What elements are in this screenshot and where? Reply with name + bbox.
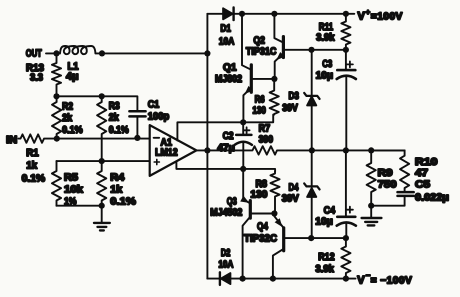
svg-text:10μ: 10μ xyxy=(315,217,333,228)
svg-text:MJ4502: MJ4502 xyxy=(210,208,242,219)
node Q1 base junction xyxy=(271,76,277,82)
svg-text:OUT: OUT xyxy=(26,48,42,59)
node C3-C4 junction xyxy=(343,147,349,153)
resistor R13 xyxy=(26,53,61,96)
svg-text:0.1%: 0.1% xyxy=(110,197,136,208)
svg-text:3.3: 3.3 xyxy=(30,73,43,84)
resistor R8 xyxy=(250,172,279,214)
wire inverting input line xyxy=(57,138,150,140)
svg-text:IN: IN xyxy=(6,135,17,146)
svg-text:D2: D2 xyxy=(221,248,231,259)
transistor Q2 TIP31C xyxy=(246,14,285,79)
wire Q2 base line xyxy=(283,49,346,51)
resistor R2 xyxy=(52,96,83,138)
svg-text:39V: 39V xyxy=(282,194,299,205)
diode D2 10A xyxy=(218,248,233,285)
node C2 top junction xyxy=(240,119,246,125)
node V+ junction xyxy=(343,11,349,17)
svg-text:R5: R5 xyxy=(64,173,78,184)
wire V- rail (bottom) xyxy=(207,278,355,280)
node R1-R2 junction xyxy=(54,136,60,142)
svg-text:V: V xyxy=(357,275,365,287)
svg-text:1k: 1k xyxy=(110,185,122,196)
inductor L1 xyxy=(60,44,96,83)
resistor R7 xyxy=(207,124,312,155)
resistor R5 xyxy=(52,161,84,207)
node Q2 collector junction xyxy=(271,11,277,17)
resistor R1 xyxy=(19,134,57,184)
capacitor C2 xyxy=(217,122,252,169)
label V- = -100V xyxy=(357,271,412,287)
node R3 top junction xyxy=(99,93,105,99)
wire op-amp V+ pin xyxy=(177,122,243,140)
svg-text:= −100V: = −100V xyxy=(371,276,413,287)
svg-text:Q3: Q3 xyxy=(227,196,237,207)
node C2 bottom junction xyxy=(240,166,246,172)
capacitor C5 xyxy=(371,179,449,205)
node D3-D4 junction xyxy=(309,147,315,153)
resistor R3 xyxy=(97,96,129,161)
wire R6 return (y=122) xyxy=(243,115,273,123)
svg-text:Q2: Q2 xyxy=(253,36,265,47)
svg-text:2k: 2k xyxy=(62,113,72,124)
svg-text:3.9k: 3.9k xyxy=(316,33,335,44)
svg-text:R10: R10 xyxy=(415,157,438,168)
svg-text:D4: D4 xyxy=(289,183,299,194)
svg-text:C3: C3 xyxy=(322,59,332,70)
wire ground line xyxy=(57,205,102,207)
svg-text:100p: 100p xyxy=(148,112,170,123)
svg-text:R12: R12 xyxy=(318,252,335,263)
svg-text:4μ: 4μ xyxy=(66,72,79,83)
svg-text:2k: 2k xyxy=(109,113,119,124)
wire OUT line xyxy=(46,52,207,54)
svg-text:750: 750 xyxy=(378,180,397,191)
label V+ = 100V xyxy=(358,7,403,22)
svg-text:1k: 1k xyxy=(26,161,37,172)
svg-text:C1: C1 xyxy=(148,100,160,111)
svg-text:R8: R8 xyxy=(256,179,268,190)
resistor R10 xyxy=(371,150,438,192)
node op-amp output junction xyxy=(204,147,210,153)
svg-text:47: 47 xyxy=(415,168,429,179)
svg-text:=100V: =100V xyxy=(371,11,403,22)
svg-text:R9: R9 xyxy=(378,168,393,179)
resistor R12 xyxy=(315,238,350,279)
node L1 right junction xyxy=(99,50,105,56)
capacitor C1 xyxy=(129,100,169,138)
svg-text:10k: 10k xyxy=(64,185,83,196)
svg-text:10A: 10A xyxy=(219,36,235,47)
svg-text:R7: R7 xyxy=(259,124,271,135)
svg-text:TIP31C: TIP31C xyxy=(246,47,277,58)
svg-text:R6: R6 xyxy=(255,94,265,105)
svg-text:D3: D3 xyxy=(289,91,300,102)
node Q3 base junction xyxy=(271,210,277,216)
resistor R9 xyxy=(367,150,397,205)
wire Q4 base line xyxy=(284,237,346,239)
resistor R6 xyxy=(252,79,278,117)
svg-text:D1: D1 xyxy=(220,24,231,35)
svg-text:10μ: 10μ xyxy=(316,71,334,82)
node C4-R12 junction xyxy=(343,235,349,241)
wire V+ rail (top) xyxy=(207,13,354,15)
node D3 top junction xyxy=(308,47,314,53)
svg-text:R2: R2 xyxy=(62,102,73,113)
ground (R9) xyxy=(362,206,382,226)
svg-text:0.022μ: 0.022μ xyxy=(415,192,449,203)
node Q3 collector junction xyxy=(240,276,246,282)
label IN xyxy=(6,135,17,146)
wire left main vertical (output bus) xyxy=(206,14,208,279)
node OUT bus junction xyxy=(204,50,210,56)
capacitor C4 xyxy=(315,150,356,238)
svg-text:V: V xyxy=(358,10,366,22)
svg-text:390: 390 xyxy=(259,134,274,145)
resistor R4 xyxy=(97,161,136,207)
svg-text:Q4: Q4 xyxy=(257,222,268,233)
node D4 bottom junction xyxy=(308,235,314,241)
ground (input divider) xyxy=(94,206,110,231)
svg-text:130: 130 xyxy=(252,106,266,117)
svg-text:Q1: Q1 xyxy=(223,63,237,74)
wire op-amp V- pin xyxy=(176,161,243,169)
svg-text:LM12: LM12 xyxy=(155,147,178,158)
node R11-C3 junction xyxy=(343,47,349,53)
svg-text:47μ: 47μ xyxy=(217,143,235,154)
node R4 top junction xyxy=(99,158,105,164)
transistor Q3 MJ4502 xyxy=(210,169,274,279)
svg-text:3.9k: 3.9k xyxy=(315,264,334,275)
zener D4 39V xyxy=(282,150,320,238)
svg-text:C2: C2 xyxy=(223,131,234,142)
node R9 bottom junction xyxy=(368,203,374,209)
node ground junction xyxy=(99,203,105,209)
wire R8 feed (y=169) xyxy=(243,169,275,172)
node R9 top junction xyxy=(368,147,374,153)
svg-text:R1: R1 xyxy=(26,148,39,159)
svg-text:R3: R3 xyxy=(109,101,120,112)
node Q1 collector junction xyxy=(239,11,245,17)
svg-text:39V: 39V xyxy=(282,103,298,114)
node V- junction xyxy=(343,276,349,282)
svg-text:TIP32C: TIP32C xyxy=(244,233,277,244)
transistor Q4 TIP32C xyxy=(244,214,284,279)
svg-text:0.1%: 0.1% xyxy=(62,125,83,136)
node R13-R2 junction xyxy=(53,93,59,99)
wire output line right xyxy=(312,149,405,151)
svg-text:0.1%: 0.1% xyxy=(22,174,46,185)
svg-text:C4: C4 xyxy=(324,205,336,216)
svg-text:0.1%: 0.1% xyxy=(109,125,129,136)
wire non-inverting input line xyxy=(57,160,150,162)
svg-text:C5: C5 xyxy=(415,179,430,190)
wire op-amp output lead xyxy=(196,149,207,151)
svg-text:MJ802: MJ802 xyxy=(215,74,242,85)
node Q4 collector junction xyxy=(270,276,276,282)
wire feedback top (y=96) xyxy=(57,96,138,111)
node C1 bottom junction xyxy=(134,135,140,141)
svg-text:R4: R4 xyxy=(110,173,124,184)
svg-text:R11: R11 xyxy=(319,22,334,33)
transistor Q1 MJ802 xyxy=(215,14,274,123)
capacitor C3 xyxy=(316,50,356,151)
node OUT-R13 junction xyxy=(53,50,59,56)
op-amp A1 LM12 xyxy=(150,125,197,176)
svg-text:130: 130 xyxy=(250,190,267,201)
resistor R11 xyxy=(316,14,350,50)
zener D3 39V xyxy=(282,50,319,151)
svg-text:10A: 10A xyxy=(218,260,233,271)
label OUT xyxy=(26,48,42,59)
diode D1 10A xyxy=(219,8,235,48)
